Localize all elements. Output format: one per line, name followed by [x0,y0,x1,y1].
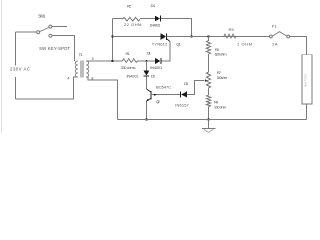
AC source wire upper [15,32,17,65]
wire [16,77,78,99]
switch SW1 pole contact [37,31,40,34]
wire [208,88,210,95]
wire [52,26,67,28]
svg-text:IN6157: IN6157 [175,103,189,108]
wire [86,77,117,120]
fuse F1 [270,35,273,38]
wire [118,119,307,121]
svg-text:BC547C: BC547C [156,85,171,90]
wire [166,36,231,38]
svg-text:D2: D2 [151,73,156,78]
node rail-tap [111,35,113,37]
wire [112,19,114,62]
svg-text:R1: R1 [126,51,131,56]
svg-text:5: 5 [92,57,94,61]
wire [208,107,210,120]
switch SW1 throw 2 contact [49,34,52,37]
svg-text:100 ohm: 100 ohm [214,104,227,109]
svg-text:T1: T1 [79,52,84,57]
diode D2 [143,71,149,76]
resistor R5 [224,34,236,38]
wire [151,94,181,96]
svg-text:R2: R2 [127,4,132,9]
svg-text:F1: F1 [272,24,278,29]
svg-text:IN4001: IN4001 [150,65,163,70]
svg-text:1 OHM: 1 OHM [237,42,252,47]
svg-text:IN4001: IN4001 [127,74,140,79]
svg-text:SW1: SW1 [38,13,46,18]
transistor Q2 [147,89,151,92]
wire [52,36,75,61]
svg-text:Q2: Q2 [156,99,161,104]
transformer T1 primary coil [75,61,78,77]
node R3-top [207,35,209,37]
resistor R3 [206,41,210,54]
diode D1 [155,58,160,64]
wire [113,60,123,62]
wire [306,104,308,120]
resistor R2 [123,17,140,21]
wire [138,60,156,62]
svg-text:100 ohm: 100 ohm [217,75,228,80]
wire [208,37,210,41]
diode D4 [155,16,160,22]
node secondary-top [111,60,113,62]
wire [146,77,148,90]
thyristor Q1 gate wire [166,38,170,41]
node emitter-rail [145,118,147,120]
resistor R1 [123,59,138,62]
transformer T1 secondary coil [86,61,89,77]
wire [140,18,155,20]
svg-text:620 ohm: 620 ohm [215,51,228,56]
left page border [0,0,2,133]
wire [161,19,192,37]
switch SW1 blade [40,27,50,31]
svg-text:1N4001: 1N4001 [150,23,162,28]
switch SW1 throw 1 contact [49,25,52,28]
wire [289,37,306,55]
svg-text:2A: 2A [272,41,278,46]
battery load box [302,55,312,104]
ground [208,120,210,129]
resistor R4 [206,95,210,106]
potentiometer R7 wiper arrow [205,79,208,82]
svg-text:BATTERY: BATTERY [304,73,308,87]
transformer T1 core [80,60,82,77]
AC source wire lower [15,77,17,99]
svg-text:22 OHM: 22 OHM [124,22,142,27]
wire [113,36,161,38]
wire [16,31,37,33]
svg-text:TYN612: TYN612 [152,42,168,47]
wire [86,60,112,62]
wire [146,101,148,119]
svg-text:D1: D1 [147,50,152,55]
potentiometer R7 [206,72,210,88]
svg-text:D3: D3 [184,81,189,86]
wire [208,54,210,72]
wire [209,36,270,38]
svg-text:230V AC: 230V AC [10,66,30,71]
node D2-tap [146,60,148,62]
svg-text:Q1: Q1 [176,41,181,46]
thyristor Q1 [161,33,166,40]
wire [146,61,148,71]
svg-text:R5: R5 [229,27,235,32]
diode D3 [179,91,181,97]
node R4-rail [207,118,209,120]
svg-text:SW KEY-SPDT: SW KEY-SPDT [39,46,70,51]
svg-text:D4: D4 [151,3,156,8]
svg-text:330 ohms: 330 ohms [121,65,136,70]
node D4-rejoin [190,35,192,37]
wire [187,81,205,95]
wire [113,18,123,20]
svg-text:4: 4 [67,76,69,80]
node base pin [154,94,156,96]
